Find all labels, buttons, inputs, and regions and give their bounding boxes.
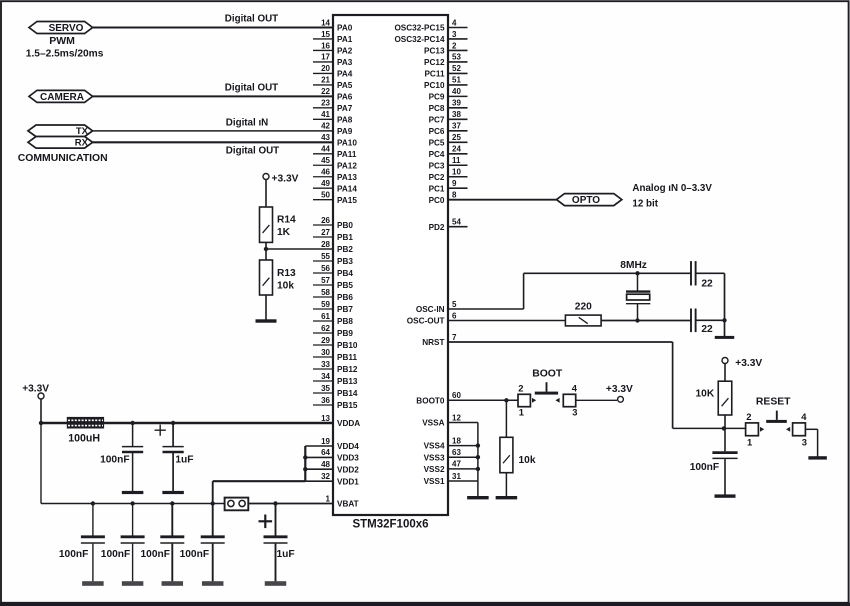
label 22 (bottom) [701, 324, 713, 335]
U1 pin 28 PB2 [266, 240, 353, 254]
U1 pin 43 PA10 [93, 133, 358, 147]
svg-text:VDD3: VDD3 [337, 454, 359, 463]
U1 pin 19 VDD4 [305, 437, 359, 451]
U1 pin 5 OSC-IN [416, 300, 524, 314]
svg-text:8MHz: 8MHz [620, 260, 647, 271]
U1 pin 54 PD2 [429, 218, 468, 232]
U1 pin 52 PC11 [424, 64, 467, 78]
svg-text:PWM: PWM [49, 35, 75, 47]
U1 pin 8 PC0 [429, 191, 557, 205]
svg-text:17: 17 [321, 53, 330, 62]
svg-text:VDD4: VDD4 [337, 442, 359, 451]
U1 pin 21 PA5 [313, 76, 353, 90]
svg-text:VDD1: VDD1 [337, 477, 359, 486]
svg-text:+3.3V: +3.3V [606, 384, 633, 395]
svg-text:57: 57 [321, 276, 330, 285]
node rail junction low1 [91, 501, 95, 505]
svg-text:22: 22 [701, 279, 713, 290]
resistor 10K (nrst) [718, 381, 732, 415]
node R14-R13 junction [264, 247, 268, 251]
wire C low3 top [171, 504, 173, 536]
U1 pin 2 PC13 [424, 41, 467, 55]
wire VBAT rail right [248, 503, 333, 505]
svg-text:PB12: PB12 [337, 365, 358, 374]
wire boot to +3.3V [576, 399, 617, 401]
U1 pin 20 PA4 [313, 64, 353, 78]
svg-text:45: 45 [321, 156, 330, 165]
capacitor 100nF (C low3) [160, 537, 184, 543]
wire C low4 top [212, 504, 214, 536]
svg-text:10: 10 [452, 168, 461, 177]
svg-text:40: 40 [452, 87, 461, 96]
resistor 10k (boot) [500, 437, 513, 472]
svg-text:62: 62 [321, 324, 330, 333]
connector TX [28, 125, 93, 137]
node VDD bus j2 [303, 467, 307, 471]
jumper JP1 [225, 498, 249, 511]
U1 pin 3 OSC32-PC14 [394, 30, 467, 44]
svg-text:PB15: PB15 [337, 401, 358, 410]
U1 pin 64 VDD3 [305, 448, 359, 462]
wire C low4 bottom [212, 544, 214, 582]
svg-text:9: 9 [452, 179, 457, 188]
svg-text:PA11: PA11 [337, 150, 357, 159]
node VSS j3 [476, 467, 480, 471]
svg-text:PA14: PA14 [337, 184, 357, 193]
svg-text:PC5: PC5 [429, 138, 445, 147]
label 1 (reset) [747, 436, 752, 447]
U1 pin 48 VDD2 [305, 460, 359, 474]
svg-text:46: 46 [321, 168, 330, 177]
svg-text:PC1: PC1 [429, 184, 445, 193]
label Digital OUT (rx) [226, 146, 279, 157]
svg-text:Digital OUT: Digital OUT [225, 13, 278, 24]
U1 pin 50 PA15 [313, 191, 357, 205]
U1 pin 24 PC4 [429, 145, 468, 159]
svg-text:19: 19 [321, 437, 330, 446]
label 4 (boot) [572, 382, 578, 393]
svg-text:48: 48 [321, 460, 330, 469]
power +3.3V terminal (nrst) [722, 358, 762, 369]
svg-text:41: 41 [321, 110, 330, 119]
svg-text:BOOT: BOOT [532, 368, 563, 379]
svg-text:100uH: 100uH [68, 433, 100, 445]
svg-text:VSS4: VSS4 [424, 442, 445, 451]
wire vdd feed up [212, 481, 214, 503]
capacitor 100nF (VDDA) [122, 447, 143, 452]
svg-text:23: 23 [321, 99, 330, 108]
label 12 bit [632, 198, 658, 209]
svg-text:Analog ıN 0–3.3V: Analog ıN 0–3.3V [632, 183, 712, 194]
svg-text:4: 4 [801, 411, 807, 422]
svg-text:PC2: PC2 [429, 173, 445, 182]
svg-text:R14: R14 [277, 214, 296, 225]
svg-text:56: 56 [321, 264, 330, 273]
svg-text:18: 18 [452, 436, 461, 445]
label + (1uF VBAT) [259, 515, 273, 529]
svg-text:100nF: 100nF [690, 462, 719, 473]
U1 pin 30 PB11 [313, 348, 357, 362]
svg-text:1.5–2.5ms/20ms: 1.5–2.5ms/20ms [26, 48, 104, 59]
U1 pin 34 PB13 [313, 372, 358, 386]
svg-text:PC3: PC3 [429, 161, 445, 170]
U1 pin 41 PA8 [313, 110, 353, 124]
svg-text:100nF: 100nF [101, 549, 130, 560]
ground (R13) [256, 319, 277, 322]
svg-text:VBAT: VBAT [337, 500, 359, 509]
svg-text:47: 47 [452, 460, 461, 469]
svg-text:PC8: PC8 [429, 104, 445, 113]
switch RESET pin4 box [793, 423, 806, 436]
svg-text:PB7: PB7 [337, 305, 353, 314]
svg-text:Digital OUT: Digital OUT [225, 83, 278, 94]
wire +3.3V to 10K [724, 364, 726, 382]
svg-text:PA1: PA1 [337, 35, 353, 44]
capacitor 1uF (VDDA) [163, 447, 184, 452]
svg-text:7: 7 [452, 333, 457, 342]
U1 pin 59 PB7 [313, 300, 353, 314]
node crystal top junction [635, 271, 639, 275]
U1 pin 13 VDDA [41, 414, 360, 428]
wire 10K to junction [724, 415, 726, 428]
svg-text:PB5: PB5 [337, 281, 353, 290]
svg-text:+3.3V: +3.3V [735, 358, 762, 369]
svg-text:3: 3 [802, 436, 807, 447]
U1 pin 16 PA2 [313, 41, 353, 55]
switch BOOT pin2 box [518, 394, 530, 406]
node BOOT0 junction [504, 398, 508, 402]
U1 pin 49 PA14 [313, 179, 357, 193]
U1 pin 18 VSS4 [424, 436, 478, 450]
U1 pin 11 PC3 [429, 156, 468, 170]
svg-text:PA9: PA9 [337, 127, 353, 136]
wire NRST route [673, 342, 746, 428]
wire cap C-a bottom [132, 453, 134, 491]
svg-text:Digital OUT: Digital OUT [226, 146, 279, 157]
svg-text:PC12: PC12 [424, 58, 445, 67]
label RESET [756, 397, 791, 408]
svg-text:10k: 10k [519, 455, 536, 466]
svg-text:STM32F100x6: STM32F100x6 [352, 519, 428, 531]
svg-text:PB10: PB10 [337, 341, 358, 350]
connector RX [28, 137, 93, 149]
switch BOOT contact right [555, 398, 559, 403]
wire osc right bus [724, 273, 726, 336]
svg-text:34: 34 [321, 372, 330, 381]
wire cap C-a top [132, 423, 134, 446]
svg-text:PB9: PB9 [337, 329, 353, 338]
wire nrst to 100nF [724, 428, 726, 451]
svg-text:21: 21 [321, 76, 330, 85]
wire C low5 bottom [275, 544, 277, 582]
U1 pin 42 PA9 [93, 122, 353, 136]
wire cap22bot to bus [696, 319, 725, 321]
svg-text:4: 4 [452, 18, 457, 27]
svg-text:29: 29 [321, 336, 330, 345]
svg-text:PA7: PA7 [337, 104, 353, 113]
svg-text:63: 63 [452, 448, 461, 457]
ground (VSS) [467, 496, 489, 499]
svg-text:PA13: PA13 [337, 173, 357, 182]
node VDD bus j1 [303, 455, 307, 459]
svg-text:61: 61 [321, 312, 330, 321]
switch BOOT contact left [532, 398, 536, 403]
node rail-3v3 junction [39, 421, 43, 425]
ground (C low5) [265, 581, 287, 586]
svg-text:PB2: PB2 [337, 245, 353, 254]
svg-text:44: 44 [321, 145, 330, 154]
label 3 (reset) [802, 436, 807, 447]
svg-text:2: 2 [452, 41, 457, 50]
ground (C low4) [202, 581, 224, 586]
U1 pin 14 PA0 [93, 18, 353, 32]
node rail junction c2 [171, 421, 175, 425]
U1 pin 57 PB5 [313, 276, 353, 290]
U1 pin 23 PA7 [313, 99, 353, 113]
svg-text:+3.3V: +3.3V [272, 174, 299, 185]
U1 pin 44 PA11 [313, 145, 357, 159]
svg-text:VSS2: VSS2 [424, 465, 445, 474]
svg-text:52: 52 [452, 64, 461, 73]
node nrst junction [722, 426, 726, 430]
svg-text:CAMERA: CAMERA [40, 92, 84, 103]
connector CAMERA [29, 90, 93, 102]
label Analog IN 0-3.3V [632, 183, 712, 194]
svg-text:53: 53 [452, 53, 461, 62]
svg-text:TX: TX [76, 126, 89, 137]
svg-text:33: 33 [321, 360, 330, 369]
U1 pin 7 NRST [422, 333, 672, 347]
svg-text:PB0: PB0 [337, 221, 353, 230]
U1 pin 53 PC12 [424, 53, 467, 67]
svg-text:1: 1 [519, 406, 524, 417]
node rail junction low3 [170, 501, 174, 505]
connector SERVO [29, 22, 93, 34]
U1 pin 15 PA1 [313, 30, 353, 44]
capacitor 100nF (C low2) [121, 537, 145, 543]
wire reset to gnd corner [805, 429, 817, 456]
U1 pin 39 PC8 [429, 99, 468, 113]
node rail junction low5 [273, 501, 277, 505]
svg-text:PA6: PA6 [337, 92, 353, 101]
capacitor 22 bottom [691, 309, 696, 333]
svg-text:64: 64 [321, 448, 330, 457]
svg-text:PC4: PC4 [429, 150, 445, 159]
svg-text:PB3: PB3 [337, 257, 353, 266]
svg-text:OPTO: OPTO [572, 195, 600, 206]
U1 pin 4 OSC32-PC15 [394, 18, 467, 32]
svg-text:100nF: 100nF [141, 549, 170, 560]
capacitor 100nF (nrst) [712, 453, 737, 459]
svg-text:1: 1 [747, 436, 752, 447]
wire 100nF to gnd [724, 459, 726, 495]
U1 pin 56 PB4 [313, 264, 353, 278]
svg-text:43: 43 [321, 133, 330, 142]
svg-text:1K: 1K [277, 227, 291, 238]
svg-text:PB13: PB13 [337, 377, 358, 386]
wire vdd feed right [213, 480, 306, 482]
node rail junction c1 [130, 421, 134, 425]
svg-text:2: 2 [518, 382, 523, 393]
svg-text:VDDA: VDDA [337, 419, 360, 428]
label R14 1K [277, 214, 296, 238]
label 1.5-2.5ms/20ms [26, 48, 104, 59]
svg-text:VSS3: VSS3 [424, 453, 445, 462]
svg-text:R13: R13 [277, 268, 296, 279]
svg-text:PC10: PC10 [424, 81, 445, 90]
ground (C low1) [82, 581, 104, 586]
svg-text:20: 20 [321, 64, 330, 73]
label BOOT [532, 368, 563, 379]
wire C low5 top [275, 504, 277, 536]
node crystal bottom junction [635, 318, 639, 322]
svg-text:PA3: PA3 [337, 58, 353, 67]
node VSS j1 [476, 443, 480, 447]
U1 pin 45 PA12 [313, 156, 357, 170]
node rail junction low2 [130, 501, 134, 505]
svg-text:3: 3 [572, 406, 577, 417]
wire C low3 bottom [171, 544, 173, 582]
label Digital OUT (camera) [225, 83, 278, 94]
svg-text:PB1: PB1 [337, 233, 353, 242]
svg-text:22: 22 [321, 87, 330, 96]
label 10k (boot) [519, 455, 536, 466]
connector OPTO [557, 194, 622, 206]
U1 pin 46 PA13 [313, 168, 357, 182]
U1 pin 6 OSC-OUT [407, 311, 566, 325]
svg-text:8: 8 [452, 191, 457, 200]
svg-text:60: 60 [452, 391, 461, 400]
wire C low1 bottom [92, 544, 94, 582]
U1 pin 47 VSS2 [424, 460, 478, 474]
label 100nF (VDDA) [100, 455, 129, 466]
svg-text:11: 11 [452, 156, 461, 165]
svg-text:PA12: PA12 [337, 161, 357, 170]
svg-text:PC11: PC11 [424, 70, 444, 79]
node VSS j2 [476, 455, 480, 459]
wire rail down to VBAT rail [40, 423, 42, 504]
svg-text:COMMUNICATION: COMMUNICATION [18, 153, 108, 164]
svg-text:OSC-IN: OSC-IN [416, 305, 445, 314]
svg-text:PC9: PC9 [429, 92, 445, 101]
ground (osc) [715, 336, 735, 339]
U1 pin 40 PC9 [429, 87, 468, 101]
capacitor 1uF (C low5) [264, 537, 288, 543]
svg-text:31: 31 [452, 472, 461, 481]
label Digital IN [226, 118, 268, 129]
svg-text:35: 35 [321, 384, 330, 393]
inductor L1 100uH [67, 417, 104, 429]
wire C low2 bottom [132, 544, 134, 582]
ground (reset) [808, 456, 827, 459]
svg-text:NRST: NRST [422, 338, 444, 347]
svg-text:51: 51 [452, 76, 461, 85]
U1 part label STM32F100x6 [352, 519, 428, 531]
svg-text:PA4: PA4 [337, 70, 353, 79]
U1 pin 12 VSSA [422, 413, 478, 427]
svg-text:SERVO: SERVO [49, 23, 84, 34]
svg-text:12 bit: 12 bit [632, 198, 658, 209]
capacitor 100nF (C low4) [201, 537, 225, 543]
svg-text:PC7: PC7 [429, 115, 445, 124]
wire 220 to crystal [601, 320, 691, 322]
svg-text:12: 12 [452, 413, 461, 422]
svg-text:50: 50 [321, 191, 330, 200]
svg-text:RX: RX [75, 138, 89, 149]
svg-text:25: 25 [452, 133, 461, 142]
U1 pin 25 PC5 [429, 133, 468, 147]
switch RESET pin2 box [746, 423, 759, 436]
switch RESET actuator [766, 411, 787, 423]
label 2 (reset) [746, 411, 751, 422]
svg-text:RESET: RESET [756, 397, 791, 408]
crystal Y1 8MHz [626, 273, 650, 320]
resistor R13 10k [260, 260, 273, 295]
svg-text:39: 39 [452, 99, 461, 108]
U1 pin 37 PC6 [429, 122, 468, 136]
svg-text:PD2: PD2 [429, 223, 445, 232]
label 1uF (C low5) [277, 549, 295, 560]
svg-text:OSC-OUT: OSC-OUT [407, 317, 445, 326]
svg-text:PB8: PB8 [337, 317, 353, 326]
switch BOOT actuator [535, 382, 558, 394]
U1 pin 38 PC7 [429, 110, 468, 124]
svg-text:14: 14 [321, 18, 330, 27]
svg-text:58: 58 [321, 288, 330, 297]
U1 pin 62 PB9 [313, 324, 353, 338]
U1 pin 26 PB0 [313, 216, 353, 230]
svg-text:VDD2: VDD2 [337, 465, 359, 474]
U1 pin 27 PB1 [313, 228, 353, 242]
svg-text:16: 16 [321, 41, 330, 50]
wire 10k to gnd [505, 473, 507, 497]
svg-text:100nF: 100nF [59, 549, 88, 560]
svg-text:2: 2 [746, 411, 751, 422]
switch RESET contact left [760, 427, 764, 432]
U1 pin 1 VBAT [248, 494, 358, 508]
label 1 (boot) [519, 406, 524, 417]
svg-text:6: 6 [452, 311, 457, 320]
ground (C low2) [122, 581, 144, 586]
svg-text:PB4: PB4 [337, 269, 353, 278]
U1 pin 51 PC10 [424, 76, 467, 90]
svg-text:22: 22 [701, 324, 713, 335]
svg-text:PA5: PA5 [337, 81, 353, 90]
svg-text:OSC32-PC15: OSC32-PC15 [394, 24, 445, 33]
svg-text:36: 36 [321, 396, 330, 405]
wire VSS bus [477, 423, 479, 497]
node osc bus junction [722, 318, 726, 322]
capacitor 22 top [691, 261, 696, 285]
label 2 (boot) [518, 382, 523, 393]
svg-text:100nF: 100nF [180, 549, 209, 560]
svg-text:30: 30 [321, 348, 330, 357]
U1 pin 32 VDD1 [305, 472, 359, 486]
U1 pin 31 VSS1 [424, 472, 478, 486]
U1 pin 55 PB3 [313, 252, 353, 266]
svg-text:1uF: 1uF [277, 549, 295, 560]
wire +3.3V to R14 [265, 180, 267, 208]
label 8MHz [620, 260, 647, 271]
wire C low2 top [132, 504, 134, 536]
wire +3.3V down to rail [40, 399, 42, 423]
svg-text:PB11: PB11 [337, 353, 357, 362]
svg-text:PB6: PB6 [337, 293, 353, 302]
svg-text:OSC32-PC14: OSC32-PC14 [394, 35, 445, 44]
svg-text:37: 37 [452, 122, 461, 131]
ground (nrst cap) [715, 494, 736, 497]
svg-text:3: 3 [452, 30, 457, 39]
